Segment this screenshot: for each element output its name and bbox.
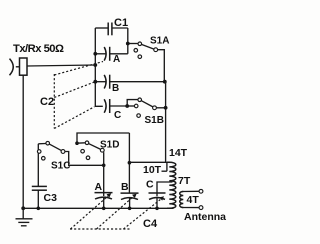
switch S1D contact 2: [81, 149, 85, 153]
wire S1D pole down: [103, 152, 105, 165]
switch S1B contact 3: [137, 114, 141, 118]
wire link bottom lead: [182, 207, 199, 209]
terminal antenna bottom: [199, 206, 203, 210]
capacitor C4 section A plates: [95, 193, 113, 199]
switch S1D pole: [100, 148, 104, 152]
inductor L2 antenna link 4T: [180, 192, 184, 208]
wire S1C pole to junction: [65, 152, 104, 166]
wire junction to coil top: [129, 161, 167, 163]
svg-text:C4: C4: [143, 218, 158, 230]
junction capC S1B: [125, 104, 129, 108]
wire C1 loop top right: [112, 27, 128, 29]
wire C1 loop top left: [95, 27, 108, 29]
wire S1B pole to bus: [157, 107, 166, 109]
switch S1A wiper: [140, 44, 156, 50]
svg-text:C: C: [114, 110, 121, 121]
wire Tx/Rx to left bus: [27, 65, 95, 66]
terminal antenna top: [199, 189, 203, 193]
switch S1C contact 3: [42, 157, 46, 161]
svg-text:A: A: [113, 54, 120, 65]
wire S1A pole to capB row: [158, 50, 165, 82]
junction capC rail: [155, 207, 159, 211]
svg-text:4T: 4T: [187, 194, 200, 206]
capacitor C2 section C: [104, 99, 127, 113]
switch S1B contact 1: [138, 98, 142, 102]
switch S1B stub to contact2: [127, 105, 134, 107]
C2 gang dashed diagonal to B: [54, 82, 94, 98]
junction S1C S1D capA: [102, 164, 106, 168]
capacitor C3 plates: [32, 186, 47, 190]
switch S1D feed wire top: [77, 133, 129, 143]
svg-text:S1A: S1A: [150, 36, 169, 47]
connector J1 tip wire: [16, 66, 20, 68]
svg-text:C: C: [146, 179, 154, 191]
capacitor C1 plates: [108, 23, 112, 36]
switch S1B feed L-wire: [127, 100, 137, 106]
switch S1B pole: [153, 106, 157, 110]
capacitor C4 section C top lead and 7T tap wire: [157, 182, 173, 196]
switch S1D contact 3: [86, 156, 90, 160]
switch S1C wiper: [48, 143, 63, 151]
switch S1C feed corner from C3: [38, 143, 45, 145]
wire right bus down: [164, 82, 167, 163]
svg-text:B: B: [112, 83, 119, 94]
svg-text:C2: C2: [40, 96, 54, 108]
wire left bus: [95, 28, 103, 106]
capacitor C2 section B: [95, 75, 165, 89]
switch S1D contact 1: [85, 141, 89, 145]
switch S1A contact 1: [138, 42, 142, 46]
junction C1 bus S1A: [126, 42, 130, 46]
svg-text:14T: 14T: [169, 147, 188, 159]
capacitor C3 riser: [37, 144, 39, 187]
junction S1D feed: [75, 141, 79, 145]
junction bus capA: [93, 52, 97, 56]
svg-text:S1B: S1B: [145, 115, 164, 126]
switch S1A pole: [154, 48, 158, 52]
svg-text:C3: C3: [44, 192, 58, 204]
wire S1D top feed down to coil junction: [128, 133, 130, 163]
switch S1B wiper: [140, 100, 155, 108]
svg-text:S1D: S1D: [100, 140, 119, 151]
switch S1D feed stub: [77, 142, 85, 144]
svg-text:Antenna: Antenna: [184, 211, 226, 223]
switch S1A contact 3: [138, 55, 142, 59]
wire junction down to capB bottom: [128, 163, 130, 193]
junction C3 rail: [37, 207, 41, 211]
junction capB S1A: [163, 80, 167, 84]
junction bus TxRx: [93, 63, 97, 67]
C4 gang dashed baseline: [70, 228, 131, 230]
connector J1 jack body: [20, 58, 28, 75]
switch S1D wiper: [87, 143, 102, 150]
inductor L1 main coil 14T: [167, 162, 176, 208]
capacitor C4 section A top lead: [103, 165, 105, 196]
capacitor C4 section B bottom lead: [129, 198, 131, 208]
svg-text:A: A: [95, 181, 103, 193]
svg-text:B: B: [121, 181, 129, 193]
C4 gang dashed arrow A: [71, 195, 110, 229]
capacitor C2 section A: [95, 47, 128, 61]
junction bus S1B: [164, 106, 168, 110]
switch S1C pole: [61, 150, 65, 154]
wire bottom ground rail: [23, 207, 173, 209]
svg-text:7T: 7T: [178, 175, 191, 187]
svg-text:C1: C1: [114, 17, 128, 29]
ground: [16, 208, 33, 226]
inductor L1 left bar: [166, 162, 168, 171]
connector J1 Tx/Rx plug arc: [10, 59, 14, 76]
C2 gang dashed diagonal to C: [54, 107, 94, 129]
switch S1B contact 2: [134, 104, 138, 108]
junction rail-connector: [21, 206, 25, 210]
junction capB rail: [128, 207, 132, 211]
capacitor C4 section A bottom lead: [103, 198, 105, 209]
inductor L1 10T tap tick: [162, 170, 167, 172]
svg-text:S1C: S1C: [51, 161, 70, 172]
wire connector ground leg: [22, 75, 24, 208]
switch S1A contact 2: [134, 49, 138, 53]
switch S1C contact 2: [37, 150, 41, 154]
junction bus capB: [93, 80, 97, 84]
capacitor C4 section C plates: [149, 193, 166, 199]
wire link top lead: [182, 190, 199, 192]
C4 gang dashed arrow C: [124, 198, 163, 229]
C2 gang dashed vertical: [53, 74, 55, 129]
capacitor C3 bottom lead: [37, 190, 39, 208]
capacitor C4 section B plates: [121, 193, 139, 199]
svg-text:Tx/Rx 50Ω: Tx/Rx 50Ω: [13, 43, 64, 55]
junction coil top feed: [128, 161, 132, 165]
C4 gang dashed arrow B: [97, 195, 135, 229]
junction capA rail: [102, 207, 106, 211]
capacitor C4 section C bottom lead: [156, 198, 158, 208]
C2 gang dashed diagonal to A: [54, 62, 103, 76]
switch S1C contact 1: [46, 141, 50, 145]
switch S1A wire from C1 bus: [128, 43, 138, 45]
svg-text:10T: 10T: [143, 164, 162, 176]
wire C1 right bus: [127, 28, 129, 54]
